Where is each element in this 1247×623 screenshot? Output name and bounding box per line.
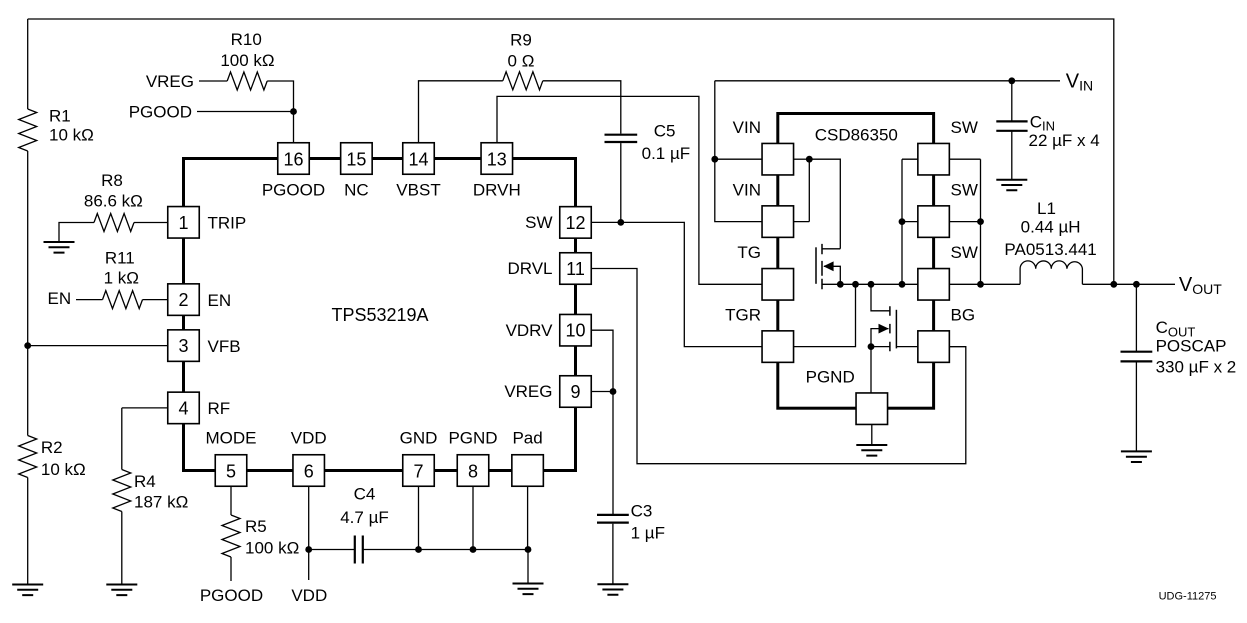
- wire R10 to pin 16 PGOOD: [267, 81, 293, 144]
- wire SW output to L1: [949, 283, 1020, 285]
- wire pin 8 PGND down: [472, 487, 474, 550]
- resistor R9: [503, 72, 543, 90]
- svg-text:6: 6: [304, 461, 314, 481]
- svg-text:R4: R4: [134, 472, 156, 491]
- resistor R11: [103, 291, 143, 309]
- svg-text:0.44 µH: 0.44 µH: [1021, 218, 1081, 237]
- ground (PGND): [856, 445, 887, 456]
- svg-text:16: 16: [283, 150, 303, 170]
- inductor L1: [1020, 261, 1082, 284]
- svg-text:SW: SW: [951, 243, 978, 262]
- wire C4 to pad ground rail: [363, 549, 528, 551]
- wire C5 to SW node: [620, 143, 622, 222]
- svg-text:2: 2: [178, 290, 188, 310]
- svg-text:VREG: VREG: [146, 72, 194, 91]
- pin 7 GND: [403, 455, 435, 487]
- capacitor COUT: [1121, 352, 1153, 362]
- wire Q2 source to PGND pin: [870, 347, 872, 394]
- svg-text:SW: SW: [951, 118, 978, 137]
- pin 4 RF: [168, 392, 200, 424]
- svg-text:1 kΩ: 1 kΩ: [104, 269, 139, 288]
- resistor R8: [94, 214, 134, 232]
- ground (COUT): [1121, 451, 1152, 462]
- svg-text:10: 10: [565, 321, 585, 341]
- svg-text:VDD: VDD: [291, 586, 327, 605]
- svg-text:PGND: PGND: [448, 429, 497, 448]
- svg-text:187 kΩ: 187 kΩ: [134, 493, 188, 512]
- svg-text:4.7 µF: 4.7 µF: [340, 508, 389, 527]
- svg-text:R1: R1: [49, 107, 71, 126]
- pin 14 VBST: [403, 143, 435, 175]
- svg-text:R5: R5: [245, 517, 267, 536]
- pin 10 VDRV: [560, 314, 592, 346]
- pin 2 EN: [168, 284, 200, 316]
- ground (C3): [597, 584, 628, 595]
- resistor R1: [19, 109, 37, 151]
- ground (C4 rail): [513, 584, 544, 595]
- svg-text:BG: BG: [951, 305, 976, 324]
- svg-text:TRIP: TRIP: [208, 214, 247, 233]
- pin 1 TRIP: [168, 207, 200, 239]
- svg-text:PGOOD: PGOOD: [200, 586, 263, 605]
- wire R9 to C5: [543, 81, 621, 134]
- wire pin 4 RF to R4: [122, 407, 168, 409]
- node PGOOD junction: [290, 108, 297, 115]
- node Q2 source junction: [868, 343, 875, 350]
- node SW left tie junction upper: [899, 218, 906, 225]
- node VDD/C4 junction: [305, 546, 312, 553]
- wire top border feedback from VOUT to R1/R2 divider: [28, 19, 1114, 284]
- svg-text:SW: SW: [525, 213, 552, 232]
- svg-text:L1: L1: [1037, 199, 1056, 218]
- pin 6 VDD: [293, 455, 325, 487]
- node VIN pins junction: [711, 156, 718, 163]
- svg-text:PGOOD: PGOOD: [262, 180, 325, 199]
- ground (R8): [44, 242, 75, 253]
- wire R8 to pin 1 TRIP: [134, 222, 168, 224]
- node GND junction: [415, 546, 422, 553]
- U2 pin VIN: [762, 143, 794, 175]
- svg-text:0.1 µF: 0.1 µF: [642, 144, 691, 163]
- wire VIN to Q1 drain: [809, 159, 840, 249]
- svg-text:22 µF x 4: 22 µF x 4: [1029, 131, 1100, 150]
- wire pin 10 VDRV down to C3: [591, 330, 613, 514]
- node COUT junction: [1133, 281, 1140, 288]
- svg-text:VDRV: VDRV: [506, 321, 554, 340]
- svg-text:R2: R2: [41, 438, 63, 457]
- wire PGOOD to junction: [197, 111, 294, 113]
- wire CIN from VIN rail: [1011, 81, 1013, 121]
- svg-text:330 µF x 2: 330 µF x 2: [1156, 358, 1237, 377]
- svg-text:100 kΩ: 100 kΩ: [220, 51, 274, 70]
- wire VIN pins right tie: [794, 159, 809, 221]
- svg-text:86.6 kΩ: 86.6 kΩ: [84, 192, 143, 211]
- wire C3 to ground: [612, 524, 614, 585]
- svg-text:TGR: TGR: [725, 305, 761, 324]
- svg-text:8: 8: [468, 461, 478, 481]
- wire pin 5 MODE down to R5: [230, 487, 232, 515]
- wire R11 to pin 2 EN: [143, 299, 168, 301]
- wire EN to R11: [76, 299, 103, 301]
- capacitor C5: [605, 135, 638, 142]
- svg-text:R10: R10: [231, 30, 262, 49]
- wire pin 7 GND down: [418, 487, 420, 550]
- resistor R2: [19, 436, 37, 478]
- svg-text:1: 1: [178, 213, 188, 233]
- pin 12 SW: [560, 207, 592, 239]
- wire Q2 source: [871, 346, 890, 348]
- U2 pin PGND: [856, 393, 888, 425]
- wire pin 6 VDD down: [308, 487, 310, 580]
- svg-text:RF: RF: [208, 399, 231, 418]
- pin 13 DRVH: [481, 143, 513, 175]
- pin 5 MODE: [215, 455, 247, 487]
- wire rail to ground: [527, 550, 529, 584]
- svg-text:R9: R9: [510, 31, 532, 50]
- U2 pin SW: [918, 143, 950, 175]
- power block U2 CSD86350 outline: [778, 114, 934, 409]
- wire VDD rail to C4: [309, 549, 355, 551]
- svg-text:VIN: VIN: [733, 118, 761, 137]
- wire VIN down to VIN pins: [715, 81, 762, 222]
- wire pin 12 SW to TGR: [591, 222, 762, 346]
- wire VREG to R10: [199, 80, 227, 82]
- resistor R10: [227, 72, 267, 90]
- svg-text:VBST: VBST: [396, 180, 440, 199]
- svg-text:TG: TG: [737, 243, 761, 262]
- wire COUT from VOUT: [1135, 284, 1137, 351]
- node TGR riser junction: [852, 281, 859, 288]
- pin Pad thermal pad: [512, 455, 543, 487]
- svg-text:CSD86350: CSD86350: [815, 126, 898, 145]
- svg-text:10 kΩ: 10 kΩ: [49, 125, 94, 144]
- svg-text:4: 4: [178, 398, 188, 418]
- op IC U1 TPS53219A outline: [184, 159, 576, 471]
- svg-text:PGOOD: PGOOD: [129, 102, 192, 121]
- capacitor C4: [355, 536, 363, 564]
- svg-text:EN: EN: [48, 289, 72, 308]
- svg-text:1 µF: 1 µF: [631, 524, 665, 543]
- wire R4 to ground: [121, 512, 123, 585]
- svg-text:13: 13: [487, 150, 507, 170]
- svg-text:DRVH: DRVH: [473, 180, 521, 199]
- wire VIN rail: [715, 80, 1060, 82]
- transistor Q2 low-side FET: [871, 284, 890, 311]
- svg-text:NC: NC: [344, 180, 369, 199]
- U2 pin SW: [918, 206, 950, 238]
- U2 pin SW: [918, 269, 950, 301]
- svg-text:5: 5: [226, 461, 236, 481]
- U2 pin TG: [762, 269, 794, 301]
- transistor Q1 high-side FET: [815, 247, 817, 283]
- node Pad junction: [525, 546, 532, 553]
- wire COUT to ground: [1135, 362, 1137, 452]
- pin 8 PGND: [457, 455, 489, 487]
- svg-text:0 Ω: 0 Ω: [508, 52, 535, 71]
- svg-text:C4: C4: [354, 485, 376, 504]
- wire SW node line: [822, 283, 918, 285]
- svg-text:10 kΩ: 10 kΩ: [41, 460, 86, 479]
- resistor R4: [113, 470, 131, 512]
- svg-text:Pad: Pad: [512, 429, 542, 448]
- wire left rail above R1: [27, 19, 29, 109]
- wire pin 14 VBST up: [419, 81, 503, 144]
- pin 11 DRVL: [560, 253, 592, 285]
- ground (R2): [12, 585, 43, 596]
- node VREG/VDRV junction: [610, 388, 617, 395]
- wire SW column right tie: [949, 159, 980, 284]
- svg-text:14: 14: [408, 150, 428, 170]
- wire VFB to pin 3: [28, 345, 168, 347]
- node Q2 drain junction: [868, 281, 875, 288]
- node PGND junction: [470, 546, 477, 553]
- svg-text:R8: R8: [101, 171, 123, 190]
- svg-text:POSCAP: POSCAP: [1156, 337, 1227, 356]
- wire VIN pin1 right side: [794, 158, 809, 160]
- svg-text:100 kΩ: 100 kΩ: [245, 539, 299, 558]
- ground (CIN): [996, 180, 1027, 191]
- node VFB junction: [24, 342, 31, 349]
- svg-text:C3: C3: [631, 502, 653, 521]
- wire pin 13 DRVH to TG: [497, 96, 762, 284]
- svg-text:R11: R11: [105, 249, 135, 268]
- svg-text:SW: SW: [951, 180, 978, 199]
- U2 pin BG: [918, 331, 950, 363]
- svg-text:TPS53219A: TPS53219A: [331, 305, 428, 325]
- svg-text:7: 7: [413, 461, 423, 481]
- svg-text:3: 3: [178, 336, 188, 356]
- wire ground stub to R8: [59, 223, 94, 243]
- wire L1 to VOUT: [1082, 283, 1175, 285]
- node SW left tie junction lower: [899, 281, 906, 288]
- ground (R4): [106, 585, 137, 596]
- svg-text:15: 15: [346, 150, 366, 170]
- node feedback junction: [1110, 281, 1117, 288]
- capacitor C3: [597, 515, 629, 523]
- U2 pin TGR: [762, 331, 794, 363]
- svg-text:VFB: VFB: [208, 337, 241, 356]
- svg-text:EN: EN: [208, 291, 232, 310]
- node SW right tie junction lower: [977, 281, 984, 288]
- node VIN/CIN junction: [1008, 77, 1015, 84]
- svg-text:12: 12: [565, 213, 585, 233]
- svg-text:UDG-11275: UDG-11275: [1159, 591, 1217, 603]
- node SW/C5 junction: [617, 219, 624, 226]
- wire R5 to PGOOD: [230, 557, 232, 581]
- wire pin 9 VREG to junction: [591, 391, 613, 393]
- svg-text:C5: C5: [654, 122, 676, 141]
- wire CIN to ground: [1011, 131, 1013, 179]
- wire left rail between R1 and R2: [27, 151, 29, 436]
- svg-text:11: 11: [566, 259, 585, 279]
- pin 3 VFB: [168, 330, 200, 362]
- wire R2 to ground: [27, 478, 29, 585]
- svg-text:VDD: VDD: [291, 429, 327, 448]
- svg-text:GND: GND: [400, 429, 438, 448]
- svg-text:VIN: VIN: [733, 180, 761, 199]
- wire VIN to first VIN pin: [715, 158, 762, 160]
- svg-text:MODE: MODE: [206, 429, 257, 448]
- svg-text:9: 9: [570, 382, 580, 402]
- svg-text:PA0513.441: PA0513.441: [1004, 240, 1096, 259]
- pin 16 PGOOD: [278, 143, 310, 175]
- resistor R5: [222, 515, 240, 557]
- svg-text:VREG: VREG: [504, 382, 552, 401]
- wire BG to DRVL riser: [949, 346, 965, 348]
- node VIN right junction: [806, 156, 813, 163]
- capacitor CIN: [996, 121, 1027, 130]
- wire TGR to SW node: [794, 284, 856, 346]
- U2 pin VIN: [762, 206, 794, 238]
- wire PGND to ground: [871, 425, 873, 446]
- wire Pad down: [527, 487, 529, 550]
- node Q1 source junction: [837, 281, 844, 288]
- pin 15 NC: [341, 143, 373, 175]
- svg-text:DRVL: DRVL: [507, 259, 552, 278]
- svg-text:PGND: PGND: [806, 368, 855, 387]
- node SW right tie junction upper: [977, 218, 984, 225]
- pin 9 VREG: [560, 376, 592, 408]
- wire pin 11 DRVL to BG: [591, 269, 966, 464]
- wire SW column left tie: [902, 159, 918, 284]
